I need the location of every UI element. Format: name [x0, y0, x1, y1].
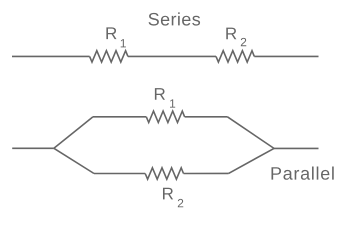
- wire between R1 and R2 (series): [128, 55, 216, 57]
- wire upper-right diagonal branch: [227, 117, 274, 149]
- wire top branch left segment: [93, 116, 146, 118]
- wire lower-left diagonal branch: [54, 148, 94, 173]
- label R1 (series): [106, 27, 126, 47]
- wire left lead of parallel circuit: [12, 147, 54, 149]
- wire left lead of series circuit: [12, 55, 90, 57]
- resistor R2 (series): [216, 51, 254, 62]
- wire right lead of parallel circuit: [274, 147, 319, 149]
- wire right lead of series circuit: [254, 55, 318, 57]
- label "Parallel": [271, 167, 333, 180]
- resistor R2 (parallel bottom branch): [145, 168, 183, 179]
- label R1 (parallel): [155, 88, 175, 108]
- wire bottom branch left segment: [94, 173, 145, 175]
- wire lower-right diagonal branch: [229, 148, 274, 173]
- wire top branch right segment: [185, 116, 228, 118]
- wire bottom branch right segment: [184, 172, 229, 174]
- label "Series": [149, 12, 201, 25]
- label R2 (parallel): [163, 188, 183, 208]
- wire upper-left diagonal branch: [54, 117, 93, 149]
- resistor R1 (series): [90, 51, 128, 62]
- label R2 (series): [226, 28, 246, 47]
- resistor R1 (parallel top branch): [146, 111, 184, 122]
